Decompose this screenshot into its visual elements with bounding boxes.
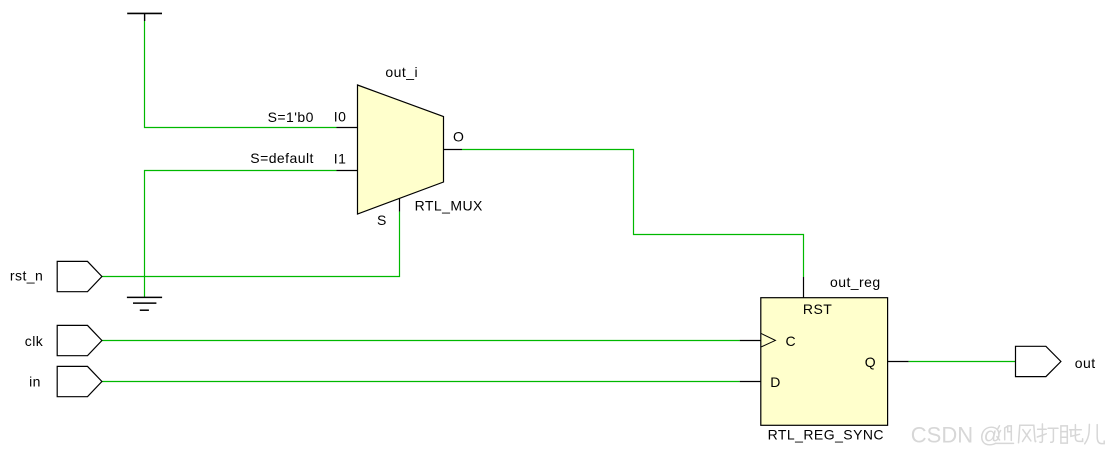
svg-text:RST: RST bbox=[803, 301, 832, 317]
watermark glyph er bbox=[1085, 424, 1105, 443]
svg-text:C: C bbox=[786, 333, 797, 349]
watermark glyph ying bbox=[997, 426, 1014, 444]
svg-text:RTL_MUX: RTL_MUX bbox=[415, 197, 483, 213]
svg-text:S=1'b0: S=1'b0 bbox=[268, 109, 314, 125]
wire Q to out bbox=[909, 361, 1016, 363]
watermark glyph feng bbox=[1019, 425, 1036, 443]
svg-text:I1: I1 bbox=[334, 150, 347, 166]
pin stub RST bbox=[803, 277, 805, 298]
wire ground to mux I1 bbox=[145, 171, 337, 298]
input port clk bbox=[57, 325, 102, 355]
watermark glyph dun bbox=[1061, 425, 1083, 444]
svg-text:S: S bbox=[377, 212, 387, 228]
clock wedge on C pin bbox=[761, 333, 776, 347]
pin stub I0 bbox=[337, 127, 358, 129]
pin stub O bbox=[444, 149, 463, 151]
svg-text:out_i: out_i bbox=[385, 64, 418, 80]
ground symbol bbox=[127, 297, 162, 310]
wire power to mux I0 bbox=[145, 21, 337, 128]
svg-text:S=default: S=default bbox=[250, 150, 314, 166]
svg-text:clk: clk bbox=[25, 333, 44, 349]
register U out_reg bbox=[761, 298, 888, 426]
svg-text:Q: Q bbox=[865, 354, 876, 370]
watermark CSDN bbox=[911, 422, 1002, 447]
svg-text:O: O bbox=[453, 129, 464, 145]
pin stub D bbox=[740, 381, 761, 383]
wire in to D bbox=[102, 381, 740, 383]
power supply symbol (const) bbox=[127, 13, 162, 21]
svg-text:out: out bbox=[1075, 355, 1096, 371]
pin stub S bbox=[399, 198, 401, 212]
svg-text:I0: I0 bbox=[334, 108, 347, 124]
svg-text:out_reg: out_reg bbox=[830, 274, 881, 290]
pin stub I1 bbox=[337, 170, 358, 172]
watermark glyph da bbox=[1037, 424, 1058, 442]
pin stub C bbox=[740, 340, 761, 342]
svg-text:D: D bbox=[770, 374, 781, 390]
wire clk to C bbox=[102, 340, 740, 342]
output port out bbox=[1016, 346, 1061, 376]
input port in bbox=[57, 366, 102, 396]
wire mux O to reg RST bbox=[462, 150, 804, 278]
svg-text:CSDN @: CSDN @ bbox=[911, 422, 1002, 447]
pin stub Q bbox=[888, 361, 909, 363]
mux U out_i bbox=[358, 85, 444, 214]
input port rst_n bbox=[57, 261, 102, 291]
svg-text:rst_n: rst_n bbox=[10, 268, 43, 284]
svg-text:in: in bbox=[29, 373, 41, 389]
wire rst_n to mux S bbox=[102, 212, 400, 277]
svg-text:RTL_REG_SYNC: RTL_REG_SYNC bbox=[768, 427, 884, 443]
